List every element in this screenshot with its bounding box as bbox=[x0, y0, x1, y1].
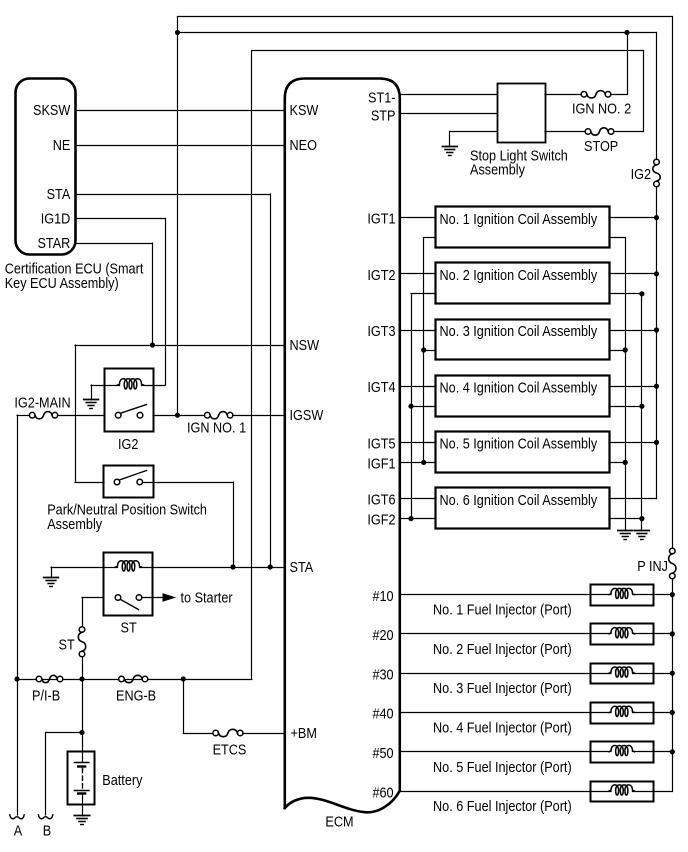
svg-text:IGN NO. 2: IGN NO. 2 bbox=[572, 99, 631, 116]
svg-text:NE: NE bbox=[53, 136, 71, 153]
svg-text:to Starter: to Starter bbox=[181, 588, 233, 605]
svg-text:No. 6 Fuel Injector (Port): No. 6 Fuel Injector (Port) bbox=[433, 797, 572, 814]
svg-text:SKSW: SKSW bbox=[33, 101, 71, 118]
svg-text:No. 2 Fuel Injector (Port): No. 2 Fuel Injector (Port) bbox=[433, 640, 572, 657]
svg-text:#40: #40 bbox=[372, 705, 393, 722]
svg-text:STAR: STAR bbox=[37, 234, 70, 251]
svg-text:P INJ: P INJ bbox=[637, 557, 668, 574]
svg-text:No. 4 Fuel Injector (Port): No. 4 Fuel Injector (Port) bbox=[433, 718, 572, 735]
svg-text:KSW: KSW bbox=[290, 101, 320, 118]
svg-text:IG2: IG2 bbox=[118, 435, 139, 452]
svg-text:#50: #50 bbox=[372, 744, 393, 761]
svg-text:Key ECU Assembly): Key ECU Assembly) bbox=[5, 274, 119, 291]
svg-text:ST: ST bbox=[121, 618, 138, 635]
svg-text:IGSW: IGSW bbox=[290, 406, 325, 423]
svg-text:Assembly: Assembly bbox=[47, 515, 102, 532]
svg-text:IG1D: IG1D bbox=[41, 209, 71, 226]
svg-text:IGF1: IGF1 bbox=[367, 454, 395, 471]
svg-text:No. 2 Ignition Coil Assembly: No. 2 Ignition Coil Assembly bbox=[440, 266, 598, 283]
svg-text:#30: #30 bbox=[372, 665, 393, 682]
svg-text:IGF2: IGF2 bbox=[367, 511, 395, 528]
svg-text:IGT6: IGT6 bbox=[367, 491, 395, 508]
svg-text:No. 3 Fuel Injector (Port): No. 3 Fuel Injector (Port) bbox=[433, 679, 572, 696]
svg-text:No. 5 Fuel Injector (Port): No. 5 Fuel Injector (Port) bbox=[433, 758, 572, 775]
svg-text:Battery: Battery bbox=[102, 771, 142, 788]
svg-text:IGT3: IGT3 bbox=[367, 322, 395, 339]
svg-text:No. 4 Ignition Coil Assembly: No. 4 Ignition Coil Assembly bbox=[440, 378, 598, 395]
svg-text:ST: ST bbox=[59, 635, 76, 652]
svg-text:#20: #20 bbox=[372, 626, 393, 643]
svg-text:#60: #60 bbox=[372, 783, 393, 800]
svg-text:IGT2: IGT2 bbox=[367, 266, 395, 283]
svg-text:No. 3 Ignition Coil Assembly: No. 3 Ignition Coil Assembly bbox=[440, 322, 598, 339]
svg-text:+BM: +BM bbox=[291, 724, 317, 741]
svg-text:ST1-: ST1- bbox=[368, 88, 395, 105]
svg-text:No. 1 Fuel Injector (Port): No. 1 Fuel Injector (Port) bbox=[433, 601, 572, 618]
svg-text:ENG-B: ENG-B bbox=[116, 687, 156, 704]
svg-text:NSW: NSW bbox=[290, 336, 320, 353]
svg-text:P/I-B: P/I-B bbox=[32, 687, 60, 704]
svg-text:STA: STA bbox=[47, 185, 71, 202]
svg-text:STA: STA bbox=[290, 558, 314, 575]
svg-text:IG2-MAIN: IG2-MAIN bbox=[14, 393, 70, 410]
svg-text:IGN NO. 1: IGN NO. 1 bbox=[187, 418, 246, 435]
svg-text:IGT5: IGT5 bbox=[367, 434, 395, 451]
svg-text:No. 6 Ignition Coil Assembly: No. 6 Ignition Coil Assembly bbox=[440, 491, 598, 508]
svg-text:IGT4: IGT4 bbox=[367, 378, 395, 395]
svg-text:IG2: IG2 bbox=[631, 165, 652, 182]
svg-text:No. 1 Ignition Coil Assembly: No. 1 Ignition Coil Assembly bbox=[440, 210, 598, 227]
svg-text:STOP: STOP bbox=[584, 137, 618, 154]
svg-text:A: A bbox=[14, 821, 23, 838]
svg-text:ECM: ECM bbox=[325, 813, 353, 830]
svg-text:NEO: NEO bbox=[290, 136, 318, 153]
svg-text:STP: STP bbox=[371, 106, 396, 123]
svg-text:Assembly: Assembly bbox=[470, 161, 525, 178]
svg-text:#10: #10 bbox=[372, 587, 393, 604]
svg-text:ETCS: ETCS bbox=[213, 740, 247, 757]
svg-text:B: B bbox=[43, 821, 51, 838]
svg-text:No. 5 Ignition Coil Assembly: No. 5 Ignition Coil Assembly bbox=[440, 435, 598, 452]
svg-text:IGT1: IGT1 bbox=[367, 210, 395, 227]
